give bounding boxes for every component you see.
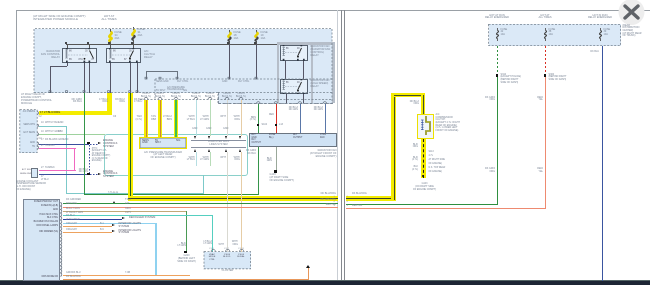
fuse F1 label	[115, 31, 122, 40]
engine controls system label 1	[103, 140, 117, 149]
wire LT BLU/LT GRN down to cluster	[212, 215, 213, 252]
teal wire bottom horizontal	[66, 193, 204, 194]
data line wire WHT	[227, 100, 228, 137]
IPM location label	[33, 15, 86, 22]
teal wire up to transducer loop	[203, 175, 204, 193]
bus wire hot feed	[66, 44, 313, 45]
IPM pin labels row	[156, 81, 169, 84]
relay RA radiator fan control relay	[280, 45, 308, 60]
wire bus to relay R1 pin 30	[89, 44, 90, 49]
wire from PCM to relay coils horizontal	[146, 71, 177, 72]
HVAC control module box	[23, 199, 60, 281]
wire DK BLU vertical	[602, 46, 603, 282]
wire LT BLU down	[155, 223, 156, 276]
wire RED/YEL dashed	[545, 46, 546, 75]
HVAC pin bumps	[0, 0, 70, 285]
wire DK BLU/DK GRN 2	[325, 104, 326, 133]
rear junction block box	[489, 24, 621, 45]
green wire up to radiator fan box	[258, 147, 259, 195]
computer data lines break top	[194, 136, 196, 139]
thick gray highlight bus right vertical	[332, 42, 334, 103]
wire RED from relay RB	[286, 94, 287, 103]
transducer label	[133, 152, 193, 161]
wire DK GRN/ORG solid	[497, 77, 498, 204]
yellow wire LT BLU/ORG vertical from relay R2	[107, 93, 112, 112]
HVAC wire RED/ORG row	[63, 207, 338, 208]
interior lights label 2	[119, 230, 141, 236]
wire fuse F3 down	[229, 44, 230, 79]
data line wire WHT/LT GRN	[210, 100, 211, 137]
data line wire WHT/LT BLU	[196, 100, 197, 137]
PCM location label	[21, 94, 52, 106]
bottom taskbar	[0, 281, 650, 285]
junction dot bus x133	[131, 42, 133, 44]
teal wire WHT/LT BLU row	[39, 126, 67, 127]
dashed vertical note	[92, 148, 111, 163]
yellow wire label	[40, 111, 60, 114]
transducer wire TAN 2	[158, 100, 163, 138]
splice square S1	[87, 142, 90, 145]
ground G103 label	[406, 183, 443, 191]
wire bus to relay R2 pin 30	[133, 44, 134, 49]
thick gray highlight bus left vertical	[277, 42, 279, 103]
PCM box	[20, 110, 37, 153]
yellow wire right vertical to compressor	[421, 93, 426, 115]
yellow wire DK GRN vertical highlighted	[128, 93, 133, 201]
relay RB radiator fan high speed relay	[280, 79, 308, 94]
radiator fan label	[290, 150, 337, 159]
engine controls system label 2	[103, 171, 117, 180]
yellow wire left vertical	[391, 95, 396, 201]
junction block label	[623, 25, 642, 38]
HVAC wire DK BLU defogger	[63, 219, 122, 220]
fuse F4	[252, 30, 261, 44]
hot at run label	[482, 15, 512, 21]
close button	[616, 0, 648, 28]
panel divider line 2	[344, 10, 345, 281]
HVAC wire LT BLU row	[63, 223, 155, 224]
fuse F3 label	[234, 31, 241, 40]
yellow wire below compressor BLK ground chain	[421, 139, 426, 178]
splice S310	[496, 74, 499, 77]
HVAC wire DK BLU/ORG bottom long	[63, 279, 308, 280]
HVAC wire GRN/DK BLU bottom	[63, 275, 190, 276]
dashed arrow to engine controls 1	[90, 144, 98, 145]
wire RED/YEL solid	[545, 77, 546, 208]
thick gray highlight bus horizontal	[277, 42, 335, 44]
wire BLK/GRN fan ground	[276, 147, 277, 171]
transducer wire labels	[132, 116, 142, 122]
transducer wire TAN 1	[144, 100, 149, 138]
HVAC wire LT BLU/LT GRN row	[63, 215, 213, 216]
DK BLU/ORG label right	[310, 193, 336, 196]
wire RED/YEL horizontal	[346, 208, 546, 209]
wire BLK/LT GRN down to G200	[186, 211, 187, 252]
data wire labels	[185, 116, 195, 122]
data line wire WHT/ORG	[241, 100, 242, 137]
interior lights label 1	[119, 223, 141, 229]
wire BRN 3.7L into fan box	[258, 104, 259, 133]
right panel edge pin stubs	[347, 196, 348, 198]
ground G102	[274, 170, 277, 173]
wire bus to relay R2 pin 86	[110, 44, 111, 49]
ECT sensor box	[31, 168, 38, 179]
wire WHT/ORG to cluster	[241, 152, 242, 252]
wire relay R1 pin87 down	[84, 63, 85, 93]
yellow wire top horizontal	[391, 93, 425, 98]
yellow wire A/C clutch feed horizontal	[346, 196, 396, 201]
wire relay R2 pin85 down	[110, 63, 111, 93]
cluster box	[204, 252, 251, 269]
wire bus to relay R1 pin 86	[67, 44, 68, 49]
defogger system label	[129, 217, 155, 220]
splice S300	[544, 74, 547, 77]
wire fuse F4 down	[256, 44, 257, 79]
left panel edge pin numbers	[334, 196, 335, 198]
IPM box right extension	[218, 92, 333, 104]
yellow wire DK BLU/ORG horizontal to right panel	[128, 196, 338, 201]
cluster label	[213, 270, 242, 273]
panel divider left edge	[337, 10, 338, 281]
HVAC wire ORG/GRY 2	[63, 232, 112, 233]
data wires resume	[196, 152, 197, 166]
blue dashed vertical	[89, 145, 90, 175]
yellow wire LT BLU/ORG horizontal to PCM	[39, 111, 112, 116]
dashed arrow to engine controls 2	[90, 174, 98, 175]
HVAC wire DK GRN/RED row	[63, 203, 338, 204]
teal loop box around transducer	[104, 134, 248, 176]
transducer wire LT GRN	[174, 100, 179, 138]
radiator fan box	[249, 133, 337, 148]
fuse FR3	[597, 28, 605, 41]
integrated power module box	[34, 29, 332, 93]
A/C compressor clutch box	[417, 114, 435, 139]
pink wire top row	[39, 148, 76, 149]
hot at all times label	[96, 15, 122, 22]
wire relay R2 pin87 down	[130, 63, 131, 93]
relay RB label	[311, 80, 330, 89]
wire DK BLU/ORG up stub	[308, 268, 309, 280]
computer data lines break bottom	[191, 146, 246, 149]
ECT sensor label	[16, 181, 46, 192]
HVAC wire ORG/GRY 1	[63, 226, 112, 227]
green wire horizontal to radiator fan	[84, 194, 259, 195]
wire DK BLU/DK GRN 1 from relay RB	[300, 104, 301, 133]
wire relay R1 pin85 elbow	[67, 63, 68, 66]
splice label on yellow	[108, 192, 118, 195]
fuse F2 label	[138, 28, 145, 37]
fuse FR1	[494, 28, 502, 41]
relay RA label	[311, 46, 331, 58]
teal wire vertical	[66, 126, 67, 193]
wire DK GRN/ORG dashed	[497, 46, 498, 75]
fuse F4 label	[261, 31, 268, 40]
panel divider line 1	[341, 10, 342, 281]
blue wire DK BLU/DK GRN row 1	[39, 144, 89, 145]
wire relay R2 pin87a down	[137, 63, 138, 93]
fuse FR2	[542, 28, 550, 41]
junction dot bus x110	[108, 42, 110, 44]
pink wire vertical	[74, 148, 75, 172]
relay R2 label	[144, 50, 155, 59]
window top border	[16, 10, 650, 11]
wire DK GRN/ORG horizontal	[346, 204, 498, 205]
HVAC wire BLK/LT GRN row	[63, 211, 187, 212]
DK GRN wire label	[113, 99, 125, 105]
relay R1 radiator fan control	[62, 48, 97, 62]
green wire DK GRN/DK BLU from relay R1	[84, 93, 85, 195]
wire relay R1 pin87a down	[89, 63, 90, 93]
junction dot bus x89	[87, 42, 89, 44]
pink wire bottom row	[39, 170, 76, 171]
HVAC row labels	[24, 201, 58, 204]
junction dot bus x66.5	[65, 42, 67, 44]
fuse F3	[225, 30, 234, 44]
C108 labels	[138, 93, 154, 98]
computer data lines label	[196, 141, 241, 147]
wire relays A-B interconnect	[285, 61, 286, 79]
compressor clutch label	[436, 114, 460, 133]
blue wire DK BLU/DK GRN row 2	[39, 174, 89, 175]
relay R1 label	[40, 50, 60, 59]
hot at all times label	[530, 15, 560, 21]
fuse F2	[129, 27, 138, 44]
fuse F1	[106, 29, 115, 44]
resumed labels	[185, 157, 195, 163]
hot in run label	[585, 15, 615, 21]
A/C pressure transducer box	[139, 137, 187, 150]
wire WHT to cluster	[227, 152, 228, 252]
pale green wire WHT/LT GRN row	[39, 134, 105, 135]
relay R2 A/C clutch	[106, 48, 141, 62]
splice square S2	[87, 173, 90, 176]
ground G200	[184, 251, 187, 254]
window left border	[16, 10, 17, 281]
